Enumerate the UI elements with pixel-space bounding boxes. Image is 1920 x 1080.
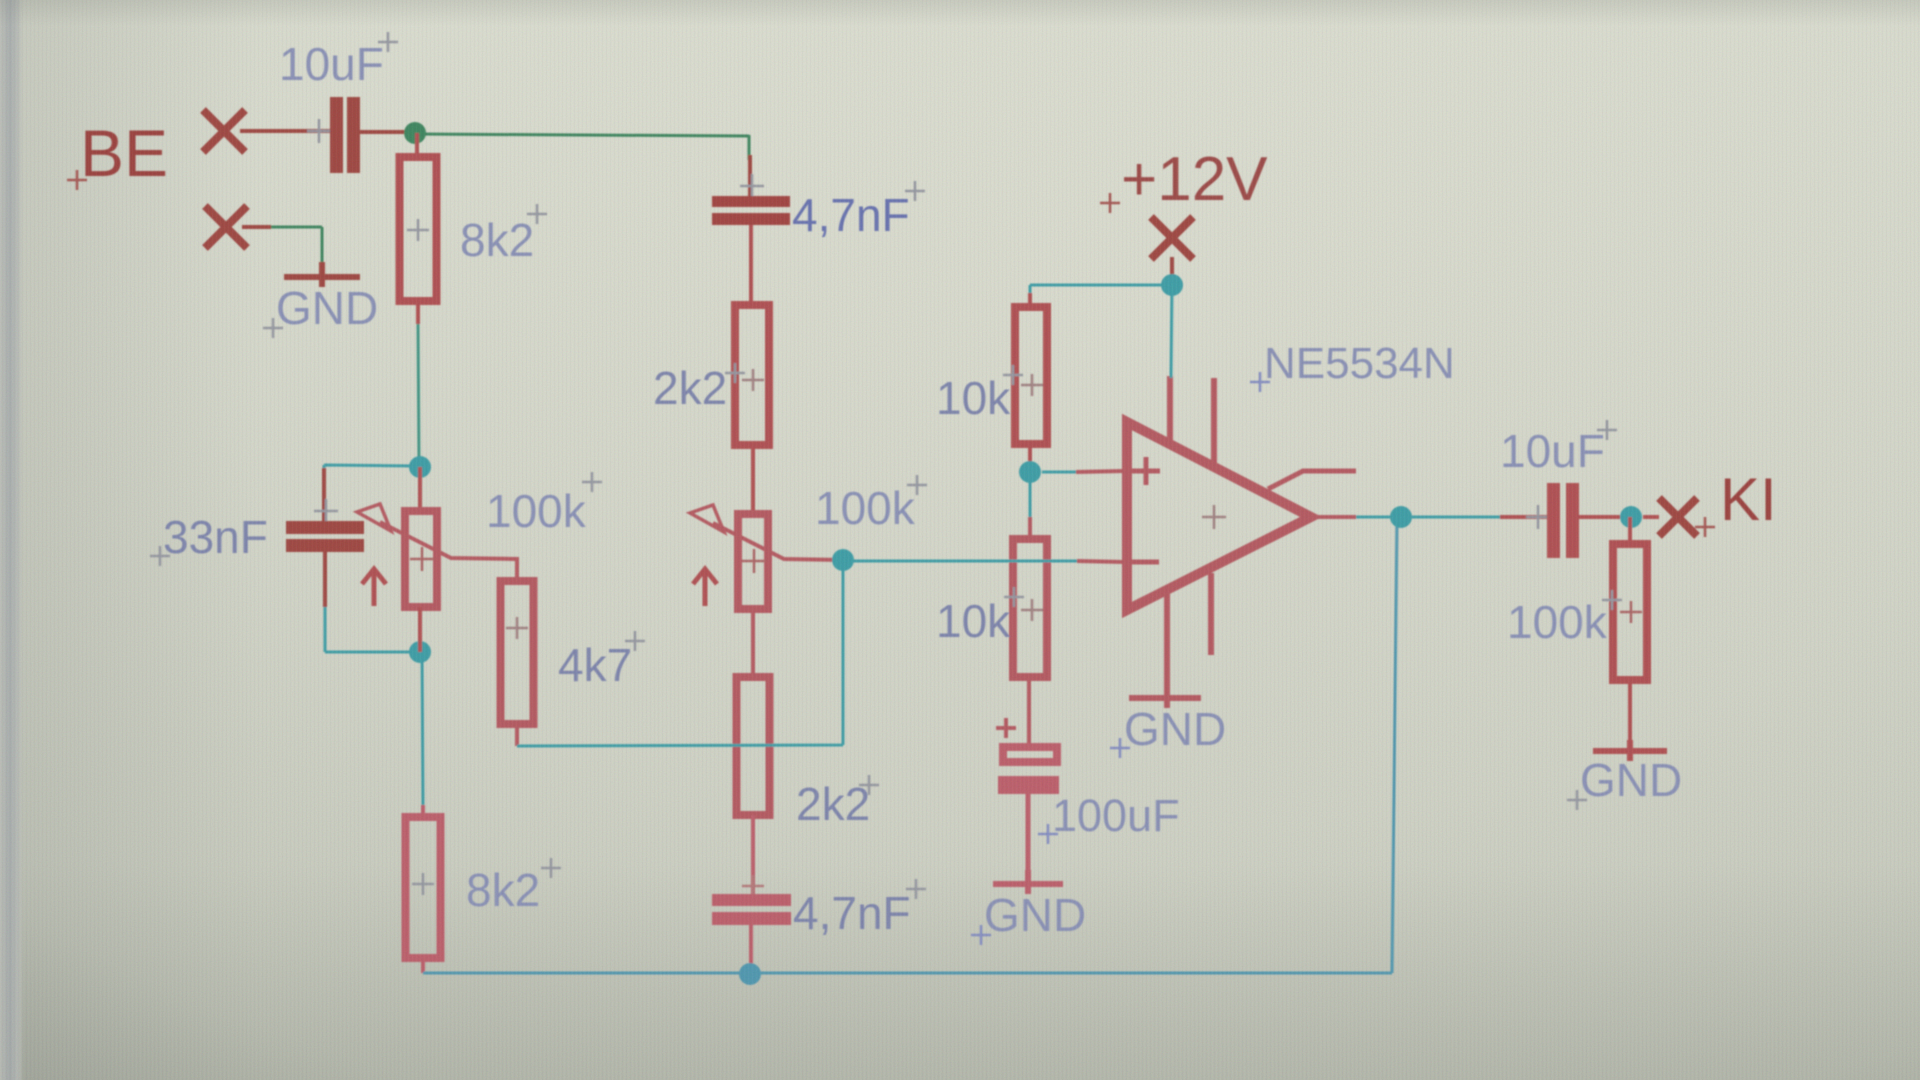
capacitor C5 100uF top plate — [1003, 747, 1057, 762]
resistor R6 10k — [1015, 307, 1047, 444]
junction node D (wiper of P2) — [832, 549, 854, 571]
pin stub C6 left — [1500, 515, 1549, 519]
capacitor C4 4.7nF plates — [712, 894, 791, 906]
P2 adjustment arrow up — [693, 569, 717, 606]
origin cross inside R6 — [1021, 374, 1043, 396]
origin cross of 4,7nF label — [905, 181, 925, 201]
origin cross of C6 — [1526, 505, 1550, 529]
origin cross of bottom 8k2 label — [541, 858, 561, 878]
pin stub R7 bottom to C5 — [1027, 677, 1031, 746]
pin X mark of connector KI — [1659, 498, 1697, 536]
wire 10uF cap to node A — [360, 130, 408, 134]
screen/window left edge strip — [0, 0, 24, 1080]
ground symbol GND (C5) — [993, 870, 1063, 894]
pin X mark of connector BE (ground side) — [205, 206, 247, 248]
wire op-amp output to node H — [1356, 516, 1390, 519]
resistor R3 2k2 — [735, 305, 769, 445]
junction node C — [409, 641, 431, 663]
origin cross of 100k label — [582, 472, 602, 492]
pin stub C6 right — [1579, 515, 1620, 519]
wire R2 bottom to center pot wiper net — [517, 560, 843, 746]
pin stub P1 top — [418, 467, 422, 513]
pin stub C3 top — [748, 155, 752, 197]
pin stub 33nF bottom — [323, 552, 327, 607]
wire 33nF bottom to node C — [325, 607, 420, 652]
op-amp balance pin vertical top — [1211, 378, 1217, 465]
op-amp U1 NE5534N triangle — [1127, 422, 1311, 610]
capacitor C2 33nF plates — [286, 521, 364, 534]
origin cross of output GND label — [1567, 790, 1587, 810]
pin stub R5 bottom — [421, 958, 425, 973]
origin cross of R4 label — [859, 775, 879, 795]
wire node D to op-amp inverting input — [843, 560, 1077, 563]
pin stub C5 bottom — [1026, 794, 1031, 884]
origin cross of NE5534N label — [1250, 372, 1270, 392]
origin cross of 8k2 label — [527, 204, 547, 224]
pin stub R8 bottom — [1628, 680, 1632, 752]
origin cross of 10k label — [1003, 365, 1023, 385]
op-amp compensation pins — [1268, 471, 1356, 489]
P1 adjustment arrow up — [362, 569, 386, 606]
capacitor C6 10uF plates — [1547, 483, 1560, 558]
origin cross of R7 label — [1004, 587, 1024, 607]
resistor R5 8k2 bottom — [406, 817, 441, 958]
origin cross of input GND — [263, 318, 283, 338]
origin cross of capacitor C-in — [307, 119, 331, 143]
pin stub P2 bottom to R4 — [751, 609, 755, 679]
origin cross of C3 — [740, 174, 764, 198]
origin cross of 33nF cap — [314, 499, 338, 523]
pin stub R7 top — [1028, 517, 1032, 541]
junction node I — [1620, 506, 1642, 528]
wire node G to op-amp non-inverting input — [1042, 471, 1076, 474]
ground symbol GND (op-amp V-) — [1129, 695, 1201, 701]
pin stub BE ground X — [242, 225, 271, 229]
origin cross of 100uF label — [1038, 824, 1058, 844]
pin stub op-amp non-inverting input — [1076, 471, 1124, 472]
origin cross of C5 GND label — [971, 925, 991, 945]
origin cross of R8 label — [1602, 590, 1622, 610]
capacitor C-in 10uF plates — [330, 97, 343, 173]
pin stub C4 bottom — [749, 925, 753, 973]
origin cross inside R2 — [506, 617, 528, 639]
resistor R7 10k — [1013, 539, 1047, 677]
resistor R2 4k7 — [501, 581, 534, 724]
wire node B to 33nF top — [324, 465, 420, 522]
origin cross of +12V label — [1100, 193, 1120, 213]
pin stub R6 top — [1028, 293, 1032, 309]
origin cross of BE label — [67, 170, 87, 190]
bottom net wire — [423, 517, 1397, 973]
junction node A — [404, 122, 426, 144]
wire +12V X to node F — [1170, 257, 1174, 285]
origin cross of 4k7 label — [625, 631, 645, 651]
wire node A to resistor 8k2 top pin — [415, 133, 419, 157]
wire R1 bottom to node B — [418, 324, 419, 462]
wire node H to output cap — [1412, 516, 1500, 519]
wire BE X to capacitor 10uF — [240, 129, 332, 133]
pin stub C3 bottom to R3 — [749, 225, 753, 307]
ground symbol GND (output) — [1593, 740, 1667, 761]
wire node F to R6 top — [1030, 285, 1172, 307]
wire node C down to R5 — [422, 652, 423, 805]
origin cross inside R8 — [1620, 601, 1642, 623]
origin cross of op-amp GND label — [1110, 738, 1130, 758]
pin stub 33nF top (red part) — [322, 468, 326, 522]
origin cross of 10uF label — [378, 32, 398, 52]
origin cross of 33nF label — [150, 546, 170, 566]
origin cross inside R1 — [407, 219, 429, 241]
op-amp V+ pin vertical — [1167, 376, 1173, 442]
origin cross of P1 — [410, 547, 434, 571]
pin stub P1 bottom — [418, 607, 422, 652]
polarity plus of capacitor C5 — [996, 718, 1016, 738]
junction node H (output) — [1390, 506, 1412, 528]
junction node G (divider mid) — [1019, 461, 1041, 483]
origin cross of P2 — [742, 549, 766, 573]
ground symbol GND (input) — [284, 262, 360, 287]
pin stub R6 bottom — [1028, 444, 1032, 466]
op-amp plus sign at non-inverting input — [1132, 457, 1160, 485]
origin cross inside R7 — [1021, 599, 1043, 621]
pin X mark of +12V supply — [1151, 217, 1193, 259]
op-amp minus sign at inverting input — [1131, 560, 1159, 565]
junction node B — [409, 456, 431, 478]
junction node F — [1161, 274, 1183, 296]
pin stub op-amp inverting input — [1077, 561, 1124, 562]
wire top net corner down to C3 — [748, 135, 751, 160]
resistor R1 8k2 — [400, 157, 437, 301]
resistor R8 100k — [1613, 544, 1647, 680]
wire node G down to R7 — [1029, 478, 1032, 517]
pin stub R5 top — [421, 805, 425, 819]
potentiometer P1 wiper arrow — [357, 504, 391, 531]
wire node F down to V+ pin — [1171, 285, 1172, 378]
op-amp V- pin vertical down — [1164, 588, 1170, 708]
pin stub R8 top — [1628, 517, 1632, 546]
wire node I to KI connector — [1643, 515, 1659, 519]
pin X mark of connector BE (signal) — [203, 110, 245, 152]
origin cross inside R5 — [412, 873, 434, 895]
pin stub R2 bottom — [515, 724, 519, 746]
potentiometer P2 wiper arrow — [690, 505, 724, 532]
capacitor C5 100uF bottom plate — [998, 776, 1059, 794]
potentiometer P2 100k body — [738, 514, 768, 609]
origin cross of 2k2 label — [725, 363, 745, 383]
pin stub R3 bottom to P2 — [751, 445, 755, 515]
junction node E (bottom net) — [739, 963, 761, 985]
wire node A to 4.7nF branch (top net) — [415, 134, 749, 136]
origin cross of KI label — [1695, 517, 1715, 537]
origin cross of C4 label — [906, 879, 926, 899]
origin cross of center 100k label — [907, 475, 927, 495]
pin stub R1 bottom — [416, 301, 420, 324]
resistor R4 2k2 bottom — [737, 677, 770, 815]
wire BE ground X to GND — [271, 227, 322, 264]
origin cross of C4 — [742, 875, 764, 897]
pin stub op-amp output — [1311, 515, 1356, 519]
capacitor C3 4.7nF plates — [712, 196, 790, 207]
origin cross of output 10uF label — [1597, 420, 1617, 440]
origin cross of U1 — [1202, 505, 1226, 529]
potentiometer P1 100k body — [405, 511, 437, 607]
op-amp balance pin vertical bottom — [1208, 573, 1214, 655]
origin cross inside R3 — [742, 369, 764, 391]
pin stub R4 bottom to C4 — [751, 815, 755, 895]
